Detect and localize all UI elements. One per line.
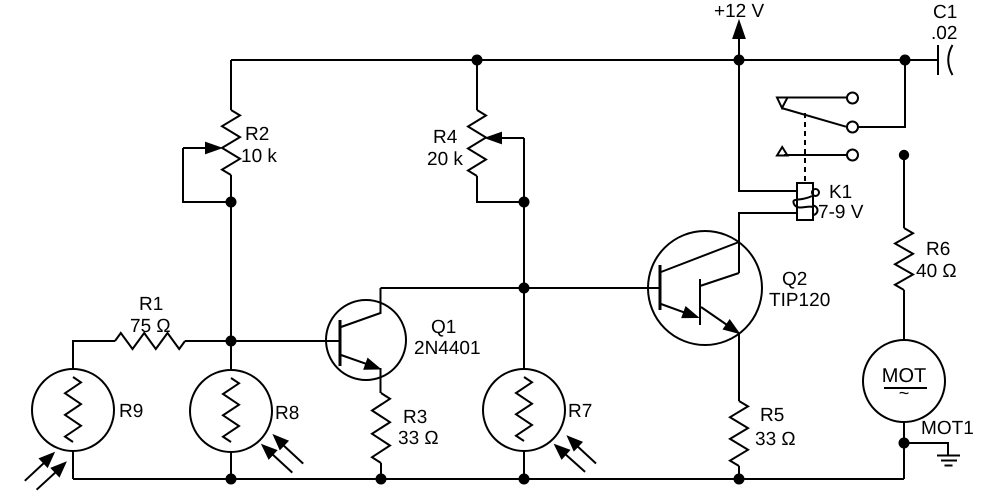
Q2 base bar 1 <box>659 265 662 310</box>
svg-text:R3: R3 <box>403 407 427 428</box>
relay contact circle middle <box>847 122 858 133</box>
wire to ground <box>904 443 948 455</box>
node C1 junction <box>901 56 910 65</box>
node R1-R2-R8 junction <box>227 337 236 346</box>
wire R3 bottom lead <box>380 463 382 479</box>
wire R6 top lead <box>903 155 905 228</box>
transistor Q1 <box>326 300 406 380</box>
svg-text:7-9 V: 7-9 V <box>818 202 864 223</box>
+12V supply arrow <box>738 30 740 60</box>
Q1 emitter <box>341 355 370 365</box>
svg-text:+12 V: +12 V <box>714 1 765 22</box>
wire motor bottom <box>903 422 905 479</box>
wire R2 top lead <box>230 60 232 110</box>
R9 light arrow 1 <box>25 462 45 481</box>
wire R8 top lead <box>230 341 232 370</box>
capacitor C1 <box>905 59 938 61</box>
R9 element <box>65 377 81 442</box>
R9 light arrow 2 <box>37 471 57 490</box>
svg-text:R8: R8 <box>275 403 299 424</box>
wire R4 wiper loop <box>523 138 525 202</box>
svg-text:10 k: 10 k <box>241 146 277 167</box>
node +12V junction <box>735 56 744 65</box>
svg-text:33 Ω: 33 Ω <box>398 428 439 449</box>
R7 element <box>516 377 532 441</box>
transistor Q2 <box>648 231 762 345</box>
Q2 collector diagonal 1 <box>661 242 739 272</box>
svg-text:75 Ω: 75 Ω <box>130 316 171 337</box>
wire R2 bottom lead <box>230 175 232 202</box>
wire bottom rail <box>73 478 904 480</box>
ground <box>937 455 960 457</box>
wire R7 bottom lead <box>523 451 525 479</box>
Q2 emitter diagonal 1 <box>661 304 688 314</box>
Q2 emitter diagonal 2 <box>701 307 730 327</box>
wire R4 junction down to Q1-Q2 wire <box>523 202 525 288</box>
relay K1 coil <box>797 183 813 220</box>
svg-text:33 Ω: 33 Ω <box>755 429 796 450</box>
resistor R5 <box>730 401 748 466</box>
svg-text:K1: K1 <box>829 182 852 203</box>
svg-text:40 Ω: 40 Ω <box>916 261 957 282</box>
resistor R2 (potentiometer body) <box>222 110 240 175</box>
node R4-R7 junction on collector wire <box>520 284 529 293</box>
wire R9 bottom lead <box>72 451 74 479</box>
node R4 top junction <box>473 56 482 65</box>
Q2 inner base bar 2 <box>699 279 701 325</box>
svg-text:C1: C1 <box>933 2 957 23</box>
node R6 top <box>900 151 908 159</box>
svg-text:2N4401: 2N4401 <box>414 338 481 359</box>
relay NC contact wire <box>784 154 847 156</box>
node R4 bottom junction <box>520 198 529 207</box>
wire R2 wiper loop <box>183 148 231 202</box>
wire relay middle contact to top rail <box>858 60 905 127</box>
wire relay coil bottom to Q2 collector <box>739 213 797 242</box>
svg-text:Q2: Q2 <box>782 269 807 290</box>
R8 light arrow 2 <box>282 444 303 464</box>
relay armature contact (common) <box>778 97 847 99</box>
wire +12V down to relay coil <box>739 60 797 191</box>
Q2 emitter lead <box>738 333 740 401</box>
node motor-ground junction <box>900 439 909 448</box>
Q2 collector line <box>738 242 740 273</box>
photoresistor R9 circle <box>32 369 114 451</box>
wire top rail <box>231 59 905 61</box>
photoresistor R7 circle <box>483 369 565 451</box>
wire R1 to node <box>185 340 231 342</box>
wire R4 bottom lead <box>477 176 524 202</box>
svg-text:~: ~ <box>899 383 910 403</box>
Q1 base bar <box>339 320 342 366</box>
R2 wiper arrow <box>183 147 208 149</box>
wire node to Q1 base <box>231 340 340 342</box>
motor MOT1 circle <box>863 340 945 422</box>
R7 light arrow 2 <box>575 444 596 464</box>
R8 light arrow 1 <box>271 453 292 473</box>
svg-text:MOT1: MOT1 <box>921 418 974 439</box>
resistor R6 <box>895 228 913 290</box>
wire R8 bottom lead <box>230 452 232 479</box>
svg-text:R7: R7 <box>568 401 592 422</box>
relay NC contact triangle <box>777 147 788 156</box>
R4 wiper arrow <box>502 137 524 139</box>
svg-text:R6: R6 <box>926 239 950 260</box>
resistor R1 <box>115 333 185 349</box>
svg-text:R9: R9 <box>119 401 143 422</box>
relay dashed actuator line <box>804 113 806 183</box>
svg-text:20 k: 20 k <box>427 149 463 170</box>
svg-text:R2: R2 <box>245 124 269 145</box>
svg-text:.02: .02 <box>931 23 957 44</box>
wire R4 top lead <box>476 60 478 110</box>
R7 light arrow 1 <box>564 453 585 472</box>
wire R4 node down to R7 <box>523 288 525 370</box>
Q2 collector diagonal 2 <box>700 273 739 286</box>
node R8 bottom junction <box>227 475 236 484</box>
photoresistor R8 circle <box>190 370 272 452</box>
node R3 bottom junction <box>377 475 386 484</box>
node R7 bottom junction <box>520 475 529 484</box>
relay blade <box>782 108 847 127</box>
resistor R4 (potentiometer body) <box>468 110 486 176</box>
svg-text:TIP120: TIP120 <box>769 290 830 311</box>
node R5 bottom junction <box>735 475 744 484</box>
svg-text:Q1: Q1 <box>431 317 456 338</box>
wire R2 junction down to R1 node <box>230 202 232 341</box>
Q1 collector <box>341 288 381 327</box>
resistor R3 <box>372 393 390 463</box>
wire R6 to motor <box>903 290 905 340</box>
relay contact circle top <box>847 93 858 104</box>
wire R9 top lead <box>73 341 115 369</box>
relay contact circle bottom <box>847 150 858 161</box>
svg-text:R1: R1 <box>139 294 163 315</box>
R8 element <box>223 378 239 442</box>
svg-text:R5: R5 <box>760 405 784 426</box>
wire R5 bottom lead <box>738 466 740 479</box>
wire Q1 collector to Q2 base <box>381 287 661 289</box>
node R2 bottom junction <box>227 198 236 207</box>
svg-text:R4: R4 <box>433 127 458 148</box>
